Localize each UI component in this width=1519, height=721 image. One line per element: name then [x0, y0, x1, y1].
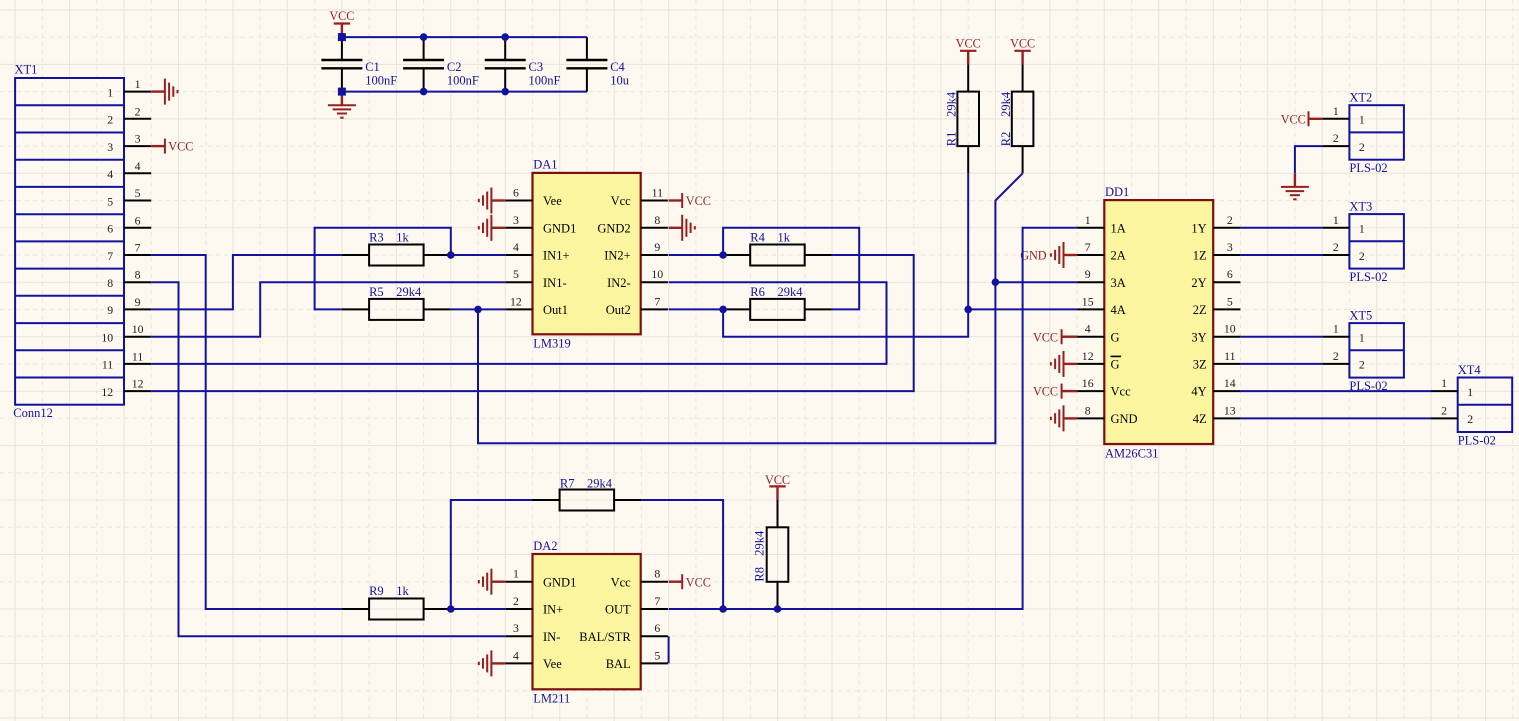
- svg-text:R8: R8: [753, 567, 767, 582]
- svg-text:IN2+: IN2+: [604, 249, 631, 263]
- junction IN2+ / R4 / loop: [719, 251, 727, 259]
- svg-text:1: 1: [1441, 376, 1447, 390]
- svg-text:2: 2: [1333, 240, 1339, 254]
- wire DD1 1Y to XT3 pin 1: [1240, 227, 1322, 229]
- svg-text:3A: 3A: [1111, 276, 1126, 290]
- svg-text:1: 1: [107, 85, 113, 99]
- svg-text:R3: R3: [369, 231, 384, 245]
- svg-text:29k4: 29k4: [778, 285, 804, 299]
- svg-text:1: 1: [135, 77, 141, 91]
- resistor R1 29k4: [967, 64, 969, 91]
- svg-text:12: 12: [1082, 349, 1094, 363]
- svg-text:Vee: Vee: [543, 194, 562, 208]
- svg-text:C2: C2: [447, 60, 462, 74]
- connector XT3 (PLS-02): [1349, 214, 1404, 269]
- svg-text:29k4: 29k4: [753, 530, 767, 556]
- svg-text:2: 2: [1359, 249, 1365, 263]
- svg-text:XT1: XT1: [15, 62, 38, 76]
- resistor R4 1k: [723, 254, 750, 256]
- capacitor C1 100nF: [341, 37, 343, 60]
- svg-text:6: 6: [513, 186, 519, 200]
- resistor R2 29k4: [1022, 64, 1024, 91]
- svg-text:VCC: VCC: [1281, 112, 1306, 126]
- svg-text:VCC: VCC: [765, 473, 790, 487]
- wire DD1 3Z to XT5 pin 2: [1240, 363, 1322, 365]
- svg-text:3Z: 3Z: [1193, 358, 1207, 372]
- svg-text:1: 1: [1085, 213, 1091, 227]
- svg-text:2: 2: [1359, 358, 1365, 372]
- svg-text:3: 3: [135, 132, 141, 146]
- svg-text:GND1: GND1: [543, 575, 576, 589]
- junction C2 bottom: [420, 88, 428, 96]
- junction IN1+ / R5 feedback: [447, 251, 455, 259]
- svg-text:8: 8: [654, 567, 660, 581]
- wire XT1 pin 12 to R4: [151, 255, 914, 391]
- junction OUT1 net / 3A tap: [992, 278, 1000, 286]
- svg-text:3: 3: [513, 621, 519, 635]
- svg-text:1A: 1A: [1111, 221, 1126, 235]
- svg-text:2: 2: [1441, 403, 1447, 417]
- power VCC (DA2 pin 8): [669, 581, 683, 583]
- svg-text:7: 7: [654, 294, 660, 308]
- wire XT1 pin 11 to DA1 IN2-: [151, 282, 886, 364]
- svg-text:C3: C3: [529, 60, 544, 74]
- ground (capacitor bank): [341, 92, 343, 106]
- svg-text:VCC: VCC: [1010, 37, 1035, 51]
- svg-text:XT4: XT4: [1458, 363, 1482, 377]
- svg-text:VCC: VCC: [1033, 330, 1058, 344]
- svg-text:13: 13: [1224, 403, 1236, 417]
- svg-text:BAL/STR: BAL/STR: [579, 630, 631, 644]
- svg-text:1k: 1k: [396, 231, 409, 245]
- svg-text:2: 2: [1227, 213, 1233, 227]
- svg-text:16: 16: [1082, 376, 1094, 390]
- wire R9 to DA2 IN+: [451, 608, 505, 610]
- svg-text:VCC: VCC: [956, 37, 981, 51]
- svg-text:1: 1: [1359, 113, 1365, 127]
- svg-text:12: 12: [510, 294, 522, 308]
- connector XT5 (PLS-02): [1349, 323, 1404, 378]
- resistor R9 1k: [342, 608, 369, 610]
- svg-text:GND: GND: [1020, 249, 1047, 263]
- svg-text:XT3: XT3: [1349, 199, 1372, 213]
- ground (DD1 pin 12 /G): [1064, 363, 1078, 365]
- ground (DA2 pin 1 GND1): [491, 581, 505, 583]
- wire node OUT1 to DD1 3A: [995, 281, 1077, 283]
- connector XT1 (Conn12): [15, 78, 124, 405]
- svg-text:1: 1: [1333, 322, 1339, 336]
- wire DD1 4Y to XT4 pin 1: [1240, 390, 1431, 392]
- svg-text:IN2-: IN2-: [607, 276, 631, 290]
- svg-text:4: 4: [513, 648, 519, 662]
- connector XT4 (PLS-02): [1458, 378, 1513, 433]
- wire GND rail (bottom): [342, 91, 587, 93]
- svg-text:10: 10: [1224, 322, 1236, 336]
- junction Out1 node: [474, 306, 482, 314]
- wire XT1 pin 10 to DA1 IN1-: [151, 282, 505, 337]
- junction C1 bottom: [338, 88, 346, 96]
- wire VCC rail (top): [342, 36, 587, 38]
- power VCC (DA1 pin 11): [669, 199, 683, 201]
- wire DA1 Out2 to R6: [669, 308, 724, 310]
- svg-text:IN+: IN+: [543, 603, 563, 617]
- svg-text:1: 1: [513, 567, 519, 581]
- svg-text:6: 6: [135, 213, 141, 227]
- capacitor C4 10u: [586, 37, 588, 60]
- svg-text:R5: R5: [369, 285, 384, 299]
- power VCC (XT1 pin 3): [151, 145, 165, 147]
- wire DA1 IN2+ to R4: [669, 254, 724, 256]
- svg-text:2A: 2A: [1111, 249, 1126, 263]
- resistor R7 29k4: [532, 499, 559, 501]
- svg-text:11: 11: [132, 349, 143, 363]
- wire DD1 4Z to XT4 pin 2: [1240, 417, 1431, 419]
- svg-text:4: 4: [1085, 322, 1091, 336]
- svg-text:GND2: GND2: [597, 221, 630, 235]
- svg-text:1Z: 1Z: [1193, 249, 1207, 263]
- svg-text:R7: R7: [560, 476, 575, 490]
- svg-text:G: G: [1111, 358, 1120, 372]
- svg-text:2Z: 2Z: [1193, 303, 1207, 317]
- comparator DA2 (LM211): [533, 554, 641, 689]
- junction C2 top: [420, 33, 428, 41]
- svg-text:6: 6: [107, 222, 113, 236]
- svg-text:LM211: LM211: [533, 691, 570, 705]
- wire XT1 pin 8 to DA2 IN-: [151, 282, 505, 636]
- resistor R3 1k: [342, 254, 369, 256]
- svg-text:2: 2: [107, 113, 113, 127]
- svg-text:GND1: GND1: [543, 221, 576, 235]
- junction R1 / 4A: [964, 306, 972, 314]
- svg-text:4: 4: [107, 167, 113, 181]
- svg-text:29k4: 29k4: [945, 91, 959, 117]
- svg-text:1: 1: [1333, 104, 1339, 118]
- resistor R5 29k4: [342, 308, 369, 310]
- wire R5 feedback loop to IN1+: [315, 228, 451, 310]
- svg-text:100nF: 100nF: [447, 73, 479, 87]
- svg-text:Vcc: Vcc: [611, 194, 632, 208]
- svg-text:5: 5: [135, 186, 141, 200]
- svg-text:C4: C4: [610, 60, 625, 74]
- svg-text:2Y: 2Y: [1191, 276, 1206, 290]
- wire R7 right to OUT net: [641, 500, 723, 609]
- svg-text:4Z: 4Z: [1193, 412, 1207, 426]
- svg-text:8: 8: [654, 213, 660, 227]
- svg-text:8: 8: [107, 276, 113, 290]
- svg-text:10u: 10u: [610, 73, 630, 87]
- wire R1 to 4A node: [967, 173, 969, 309]
- op-amp comparator DA1 (LM319): [533, 173, 641, 334]
- svg-text:1: 1: [1467, 385, 1473, 399]
- svg-text:2: 2: [1467, 412, 1473, 426]
- svg-text:8: 8: [135, 268, 141, 282]
- svg-text:1k: 1k: [396, 584, 409, 598]
- svg-text:14: 14: [1224, 376, 1236, 390]
- ground (XT1 pin 1): [151, 90, 165, 92]
- svg-text:PLS-02: PLS-02: [1458, 433, 1496, 447]
- svg-text:29k4: 29k4: [999, 91, 1013, 117]
- svg-text:VCC: VCC: [686, 194, 711, 208]
- capacitor C2 100nF: [423, 37, 425, 60]
- svg-text:3: 3: [513, 213, 519, 227]
- wire XT1 pin 7 to R9 (DA2 IN+ net): [151, 255, 342, 609]
- svg-text:7: 7: [1085, 240, 1091, 254]
- svg-text:IN1+: IN1+: [543, 249, 570, 263]
- svg-text:5: 5: [654, 648, 660, 662]
- svg-text:15: 15: [1082, 294, 1094, 308]
- junction R9 / R7 / IN+: [447, 605, 455, 613]
- svg-text:BAL: BAL: [606, 657, 631, 671]
- svg-text:11: 11: [102, 358, 113, 372]
- svg-text:Out2: Out2: [606, 303, 631, 317]
- capacitor C3 100nF: [504, 37, 506, 60]
- svg-text:29k4: 29k4: [587, 476, 613, 490]
- junction C1 top: [338, 33, 346, 41]
- svg-text:9: 9: [1085, 267, 1091, 281]
- wire R3 to DA1 IN1+: [451, 254, 505, 256]
- svg-text:LM319: LM319: [533, 336, 571, 350]
- wire DD1 3Y to XT5 pin 1: [1240, 336, 1322, 338]
- svg-text:DD1: DD1: [1105, 185, 1129, 199]
- svg-text:2: 2: [135, 104, 141, 118]
- svg-text:1: 1: [1359, 222, 1365, 236]
- svg-text:4Y: 4Y: [1191, 385, 1206, 399]
- svg-text:PLS-02: PLS-02: [1349, 161, 1387, 175]
- svg-text:GND: GND: [1111, 412, 1138, 426]
- svg-text:DA1: DA1: [533, 158, 557, 172]
- wire DA2 BAL/STR to BAL: [668, 636, 670, 663]
- svg-text:3: 3: [107, 140, 113, 154]
- svg-text:9: 9: [654, 240, 660, 254]
- svg-text:29k4: 29k4: [396, 285, 422, 299]
- svg-text:1: 1: [1333, 213, 1339, 227]
- svg-text:10: 10: [132, 322, 144, 336]
- svg-text:8: 8: [1085, 403, 1091, 417]
- svg-text:10: 10: [101, 331, 113, 345]
- svg-text:7: 7: [654, 594, 660, 608]
- svg-text:XT2: XT2: [1349, 91, 1372, 105]
- wire R5 to DA1 Out1: [451, 308, 505, 310]
- svg-text:Vcc: Vcc: [1111, 385, 1132, 399]
- svg-text:9: 9: [135, 295, 141, 309]
- svg-text:4: 4: [135, 159, 141, 173]
- line driver DD1 (AM26C31): [1104, 200, 1213, 444]
- svg-text:2: 2: [1333, 349, 1339, 363]
- svg-text:1Y: 1Y: [1191, 221, 1206, 235]
- wire Out2 jog to 4A node: [723, 309, 968, 336]
- ground (DA1 pin 3 GND1): [491, 227, 505, 229]
- junction R7 / OUT net: [719, 605, 727, 613]
- svg-text:Vcc: Vcc: [611, 575, 632, 589]
- power VCC (DD1 pin 16 Vcc): [1062, 390, 1078, 392]
- svg-text:10: 10: [651, 267, 663, 281]
- svg-text:R6: R6: [750, 285, 765, 299]
- svg-text:5: 5: [107, 194, 113, 208]
- svg-text:C1: C1: [365, 60, 380, 74]
- svg-text:4A: 4A: [1111, 303, 1126, 317]
- svg-text:Out1: Out1: [543, 303, 568, 317]
- svg-text:6: 6: [1227, 267, 1233, 281]
- svg-text:R4: R4: [750, 231, 765, 245]
- svg-text:VCC: VCC: [1033, 385, 1058, 399]
- svg-text:4: 4: [513, 240, 519, 254]
- resistor R8 29k4: [777, 500, 779, 527]
- power VCC (XT2 pin 1): [1309, 118, 1323, 120]
- svg-text:100nF: 100nF: [365, 73, 397, 87]
- svg-text:DA2: DA2: [533, 539, 557, 553]
- svg-text:Conn12: Conn12: [13, 406, 53, 420]
- svg-text:2: 2: [1359, 140, 1365, 154]
- svg-text:5: 5: [513, 267, 519, 281]
- ground (DA1 pin 8 GND2): [669, 227, 683, 229]
- svg-text:100nF: 100nF: [529, 73, 561, 87]
- svg-text:12: 12: [132, 377, 144, 391]
- junction Out2 node: [719, 306, 727, 314]
- wire DD1 1Z to XT3 pin 2: [1240, 254, 1322, 256]
- junction R8 / OUT net: [774, 605, 782, 613]
- wire DA2 OUT to DD1 1A: [669, 228, 1078, 609]
- svg-text:3: 3: [1227, 240, 1233, 254]
- svg-text:12: 12: [101, 385, 113, 399]
- wire XT2 pin 2 to ground: [1295, 146, 1322, 173]
- junction C3 bottom: [501, 88, 509, 96]
- svg-text:IN-: IN-: [543, 630, 560, 644]
- connector XT2 (PLS-02): [1349, 105, 1404, 160]
- ground (DD1 pin 8 GND): [1064, 417, 1078, 419]
- svg-text:G: G: [1111, 330, 1120, 344]
- svg-text:11: 11: [652, 186, 663, 200]
- wire DA1 Out1 to R2 and DD1 3A (node OUT1): [478, 173, 1023, 443]
- svg-text:R1: R1: [945, 132, 959, 147]
- resistor R6 29k4: [723, 308, 750, 310]
- svg-text:2: 2: [1333, 131, 1339, 145]
- ground GND (DD1 pin 7 2A): [1064, 254, 1078, 256]
- ground (XT2 pin 2): [1294, 173, 1296, 187]
- ground (DA1 pin 6 Vee): [491, 199, 505, 201]
- wire 4A node to DD1 4A: [968, 308, 1077, 310]
- wire R6 feedback loop to IN2+: [723, 228, 859, 310]
- svg-text:IN1-: IN1-: [543, 276, 567, 290]
- svg-text:XT5: XT5: [1349, 308, 1372, 322]
- svg-text:AM26C31: AM26C31: [1105, 446, 1158, 460]
- svg-text:3Y: 3Y: [1191, 330, 1206, 344]
- wire R7 left to IN+ node: [451, 500, 533, 609]
- ground (DA2 pin 4 Vee): [491, 662, 505, 664]
- svg-text:VCC: VCC: [329, 9, 354, 23]
- svg-text:7: 7: [107, 249, 113, 263]
- svg-text:OUT: OUT: [605, 603, 631, 617]
- svg-text:6: 6: [654, 621, 660, 635]
- svg-text:R2: R2: [999, 132, 1013, 147]
- junction C3 top: [501, 33, 509, 41]
- svg-text:R9: R9: [369, 584, 384, 598]
- svg-text:11: 11: [1224, 349, 1235, 363]
- svg-text:VCC: VCC: [686, 575, 711, 589]
- svg-text:5: 5: [1227, 294, 1233, 308]
- power VCC (DD1 pin 4 G): [1062, 336, 1078, 338]
- svg-text:Vee: Vee: [543, 657, 562, 671]
- svg-text:VCC: VCC: [168, 140, 193, 154]
- svg-text:9: 9: [107, 303, 113, 317]
- svg-text:PLS-02: PLS-02: [1349, 270, 1387, 284]
- svg-text:2: 2: [513, 594, 519, 608]
- svg-text:1k: 1k: [778, 231, 791, 245]
- wire XT1 pin 9 to R3: [151, 255, 342, 309]
- svg-text:1: 1: [1359, 331, 1365, 345]
- svg-text:7: 7: [135, 241, 141, 255]
